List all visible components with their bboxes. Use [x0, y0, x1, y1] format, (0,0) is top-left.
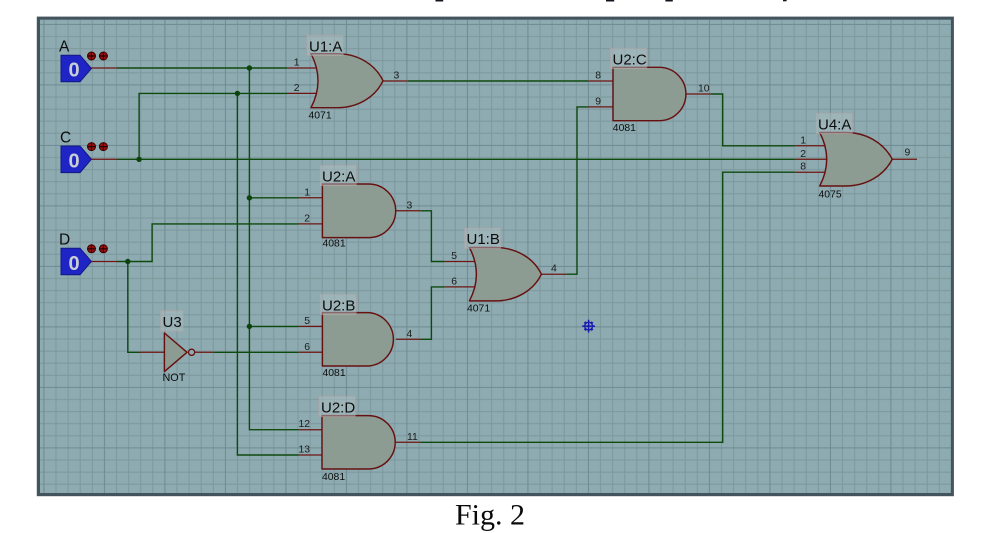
svg-text:2: 2 — [304, 213, 310, 224]
svg-text:11: 11 — [407, 432, 418, 443]
svg-text:U2:C: U2:C — [613, 51, 647, 68]
svg-text:4075: 4075 — [819, 189, 842, 200]
svg-text:2: 2 — [294, 83, 300, 94]
svg-text:4081: 4081 — [323, 368, 346, 379]
svg-text:2: 2 — [800, 149, 806, 160]
svg-text:4081: 4081 — [322, 472, 345, 483]
svg-text:U4:A: U4:A — [818, 117, 851, 134]
svg-text:U1:B: U1:B — [467, 231, 500, 248]
svg-text:U2:A: U2:A — [322, 169, 355, 186]
svg-text:U3: U3 — [163, 314, 182, 331]
svg-text:4071: 4071 — [467, 303, 490, 314]
svg-text:0: 0 — [68, 253, 79, 275]
svg-text:C: C — [60, 130, 71, 147]
svg-text:3: 3 — [394, 71, 400, 82]
svg-text:5: 5 — [451, 251, 457, 262]
svg-text:9: 9 — [905, 147, 911, 158]
svg-text:Fig. 2: Fig. 2 — [455, 499, 525, 532]
svg-text:8: 8 — [595, 71, 601, 82]
svg-text:0: 0 — [68, 151, 79, 173]
svg-text:0: 0 — [68, 60, 79, 82]
svg-text:4081: 4081 — [323, 239, 346, 250]
svg-text:12: 12 — [298, 419, 310, 430]
svg-text:6: 6 — [304, 342, 310, 353]
svg-text:U2:D: U2:D — [321, 400, 355, 417]
svg-text:3: 3 — [407, 200, 413, 211]
svg-text:1: 1 — [304, 187, 310, 198]
svg-text:4081: 4081 — [613, 123, 636, 134]
svg-text:4071: 4071 — [309, 110, 332, 121]
svg-text:U2:B: U2:B — [322, 298, 355, 315]
svg-text:4: 4 — [407, 329, 413, 340]
svg-text:U1:A: U1:A — [309, 39, 342, 56]
svg-text:D: D — [59, 232, 70, 249]
svg-text:1: 1 — [800, 135, 806, 146]
svg-text:1: 1 — [294, 58, 300, 69]
svg-text:NOT: NOT — [163, 372, 186, 384]
svg-text:9: 9 — [595, 96, 601, 107]
svg-text:A: A — [59, 39, 70, 56]
svg-text:6: 6 — [451, 276, 457, 287]
svg-text:8: 8 — [800, 162, 806, 173]
svg-text:13: 13 — [298, 445, 310, 456]
svg-text:5: 5 — [304, 316, 310, 327]
svg-text:10: 10 — [698, 84, 710, 95]
svg-text:4: 4 — [551, 264, 557, 275]
